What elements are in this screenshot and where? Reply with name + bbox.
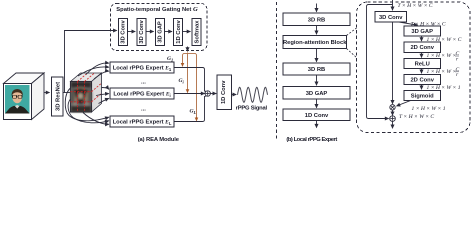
- sum node: [205, 91, 210, 96]
- detail output arrow: [392, 121, 394, 128]
- red region grid: [71, 73, 102, 112]
- multiply node: [390, 105, 395, 110]
- svg-text:rPPG Signal: rPPG Signal: [236, 105, 268, 111]
- arrow: [146, 31, 154, 33]
- arrow to signal: [232, 94, 237, 96]
- wire sigmoid to mult: [397, 100, 412, 106]
- svg-text:3D GAP: 3D GAP: [306, 91, 328, 97]
- svg-text:ReLU: ReLU: [415, 62, 430, 68]
- (b) 3D RB box 1: [283, 13, 350, 26]
- input video cube: [4, 73, 45, 120]
- svg-text:1 × H × W × 1: 1 × H × W × 1: [412, 106, 446, 112]
- (b) 3D RB box 2: [283, 63, 350, 75]
- wire resnet to feature cube: [63, 92, 71, 94]
- svg-text:Gi: Gi: [179, 78, 185, 85]
- expert output merge wire: [174, 68, 207, 122]
- arrow: [421, 69, 423, 74]
- Region-attention Block box: [283, 36, 347, 49]
- svg-text:Sigmoid: Sigmoid: [411, 93, 434, 99]
- arrow: [316, 75, 318, 85]
- svg-text:...: ...: [141, 106, 146, 112]
- 1D Conv box: [217, 75, 232, 110]
- arrow: [421, 53, 423, 58]
- svg-text:GL: GL: [190, 109, 197, 116]
- svg-text:3D RB: 3D RB: [308, 18, 325, 24]
- gating 3D GAP box: [155, 19, 164, 46]
- 3D ResNet box: [52, 77, 64, 116]
- svg-text:T × H × W × C: T × H × W × C: [399, 114, 434, 120]
- Local rPPG Expert Ei box: [110, 88, 174, 99]
- svg-text:Local rPPG Expert Ei: Local rPPG Expert Ei: [113, 92, 170, 98]
- svg-text:3D Conv: 3D Conv: [379, 15, 403, 21]
- svg-text:...: ...: [141, 79, 146, 85]
- svg-text:Spatio-temporal Gating Net G: Spatio-temporal Gating Net G: [116, 6, 198, 13]
- svg-text:Local rPPG Expert EL: Local rPPG Expert EL: [113, 120, 172, 126]
- arrow cube to 3D ResNet: [45, 92, 50, 94]
- (b) input arrow: [316, 4, 318, 12]
- att Sigmoid box: [404, 90, 441, 100]
- Local rPPG Expert EL box: [110, 116, 174, 127]
- gating Softmax box: [192, 19, 201, 46]
- arrow: [164, 31, 172, 33]
- detail input arrow: [392, 0, 394, 10]
- arrow: [316, 49, 318, 62]
- svg-text:1D Conv: 1D Conv: [221, 80, 227, 104]
- (b) 3D GAP box: [283, 87, 350, 100]
- svg-text:3D RB: 3D RB: [308, 67, 325, 73]
- gating 3D Conv box 1: [119, 19, 128, 46]
- feature map cube: [70, 73, 101, 112]
- gating 1D Conv box: [174, 19, 183, 46]
- arrow: [316, 99, 318, 108]
- svg-text:2D Conv: 2D Conv: [410, 45, 434, 51]
- svg-text:1D Conv: 1D Conv: [176, 19, 182, 43]
- svg-text:3D GAP: 3D GAP: [411, 29, 433, 35]
- Local rPPG Expert E1 box: [110, 62, 174, 73]
- arrow: [421, 84, 423, 89]
- svg-text:1D Conv: 1D Conv: [305, 113, 329, 119]
- shape label with fraction: [427, 67, 460, 78]
- wire 3D conv to 3D GAP: [399, 22, 418, 25]
- add node: [390, 116, 396, 122]
- arrow sum to 1D Conv: [210, 93, 216, 95]
- svg-text:Region-attention Block: Region-attention Block: [283, 40, 347, 46]
- detail 3D Conv box: [375, 12, 407, 23]
- svg-text:3D GAP: 3D GAP: [158, 21, 164, 43]
- arrow: [128, 31, 136, 33]
- fan-out wires cube to experts: [65, 63, 109, 124]
- svg-text:3D ResNet: 3D ResNet: [55, 82, 61, 111]
- att 3D GAP box: [404, 26, 441, 36]
- att ReLU box: [404, 59, 441, 69]
- svg-text:2D Conv: 2D Conv: [410, 77, 434, 83]
- svg-text:(b) Local rPPG Expert: (b) Local rPPG Expert: [286, 137, 337, 143]
- svg-text:(a) REA Module: (a) REA Module: [138, 137, 180, 143]
- wire mult to add: [392, 110, 394, 115]
- svg-text:T × H × W × C: T × H × W × C: [398, 3, 433, 9]
- 3D conv output wire down to mult: [392, 22, 394, 104]
- gate weight lines: [183, 52, 197, 121]
- region-attention detail dashed box: [357, 2, 471, 133]
- gating 3D Conv box 2: [137, 19, 146, 46]
- (b) 1D Conv box: [283, 109, 350, 121]
- svg-text:Local rPPG Expert E1: Local rPPG Expert E1: [113, 66, 172, 72]
- svg-text:3D Conv: 3D Conv: [121, 19, 127, 43]
- att 2D Conv box 2: [404, 74, 441, 84]
- wire branch up to gating net: [65, 31, 117, 93]
- (b) output arrow: [316, 121, 318, 128]
- Ei output wire into sum: [174, 93, 205, 95]
- panel divider: [276, 2, 278, 141]
- arrow: [421, 36, 423, 41]
- spatio-temporal gating net dashed box: [111, 4, 208, 51]
- arrow: [183, 31, 191, 33]
- shape label with fraction: [427, 51, 460, 62]
- arrow: [316, 26, 318, 35]
- rPPG waveform: [238, 87, 268, 102]
- svg-text:Softmax: Softmax: [194, 20, 200, 44]
- callout dashed lines: [347, 28, 357, 36]
- svg-text:3D Conv: 3D Conv: [139, 19, 145, 43]
- softmax output arrow: [187, 47, 189, 52]
- skip connection wire: [367, 5, 393, 119]
- att 2D Conv box 1: [404, 42, 441, 53]
